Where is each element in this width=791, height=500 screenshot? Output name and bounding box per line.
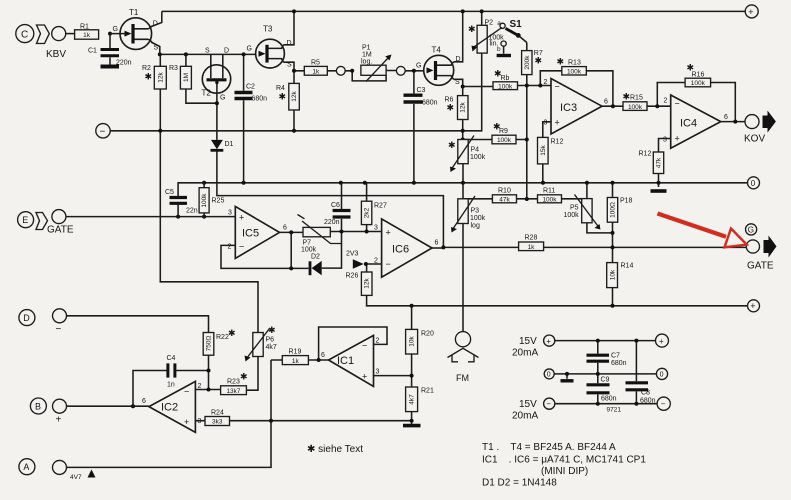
- svg-text:−: −: [546, 400, 551, 409]
- svg-text:22n: 22n: [186, 208, 198, 215]
- svg-text:1M: 1M: [362, 52, 372, 59]
- svg-text:D: D: [287, 40, 292, 47]
- svg-text:+: +: [386, 228, 391, 238]
- svg-text:R27: R27: [374, 203, 387, 210]
- svg-text:IC5: IC5: [242, 228, 259, 240]
- svg-text:100k: 100k: [497, 137, 512, 144]
- svg-text:✱: ✱: [228, 328, 236, 338]
- svg-text:✱: ✱: [535, 56, 543, 66]
- svg-text:R10: R10: [498, 188, 511, 195]
- svg-text:R28: R28: [525, 235, 538, 242]
- svg-text:680n: 680n: [422, 99, 438, 106]
- svg-text:P3: P3: [471, 208, 480, 215]
- svg-text:P18: P18: [620, 198, 633, 205]
- svg-text:R20: R20: [421, 331, 434, 338]
- svg-text:G: G: [220, 95, 225, 102]
- svg-text:T4: T4: [432, 46, 442, 55]
- svg-text:3: 3: [228, 210, 232, 217]
- svg-text:✱: ✱: [268, 325, 276, 335]
- svg-text:220n: 220n: [324, 219, 340, 226]
- svg-text:10k: 10k: [409, 336, 416, 347]
- svg-text:C9: C9: [601, 377, 610, 384]
- svg-text:R22: R22: [216, 334, 229, 341]
- svg-text:1k: 1k: [312, 69, 320, 76]
- svg-text:✱: ✱: [279, 92, 287, 102]
- svg-text:100k: 100k: [498, 83, 513, 90]
- svg-text:6: 6: [435, 240, 439, 247]
- svg-text:R13: R13: [568, 60, 581, 67]
- svg-text:+: +: [362, 372, 367, 382]
- svg-text:20mA: 20mA: [512, 348, 538, 359]
- svg-text:6: 6: [142, 398, 146, 405]
- svg-text:A: A: [23, 462, 29, 472]
- svg-text:−: −: [184, 387, 189, 397]
- svg-text:12k: 12k: [364, 278, 371, 289]
- svg-text:G: G: [247, 46, 252, 53]
- svg-text:680n: 680n: [252, 96, 268, 103]
- svg-text:T2: T2: [202, 89, 212, 98]
- svg-text:IC2: IC2: [161, 402, 178, 414]
- svg-text:1n: 1n: [167, 382, 175, 389]
- svg-text:GATE: GATE: [47, 225, 74, 236]
- svg-text:100k: 100k: [470, 154, 486, 161]
- svg-text:12k: 12k: [460, 102, 467, 113]
- svg-text:D2: D2: [311, 254, 320, 261]
- svg-text:+: +: [56, 415, 62, 426]
- svg-text:R19: R19: [289, 349, 302, 356]
- svg-text:R11: R11: [543, 188, 555, 195]
- svg-text:100Ω: 100Ω: [610, 202, 617, 218]
- svg-text:12k: 12k: [291, 91, 298, 102]
- svg-text:+: +: [184, 417, 189, 427]
- svg-text:−: −: [56, 324, 62, 335]
- svg-text:✱: ✱: [623, 92, 631, 102]
- svg-text:100k: 100k: [201, 193, 208, 208]
- svg-text:P5: P5: [570, 205, 579, 212]
- svg-text:0: 0: [547, 372, 551, 379]
- svg-text:T1 . T4 = BF245 A. BF244 A: T1 . T4 = BF245 A. BF244 A: [482, 442, 616, 453]
- svg-text:R12: R12: [639, 151, 652, 158]
- svg-text:C2: C2: [246, 84, 255, 91]
- svg-text:R3: R3: [169, 65, 178, 72]
- svg-text:2: 2: [544, 79, 548, 86]
- svg-text:+: +: [659, 337, 664, 346]
- svg-text:P4: P4: [471, 147, 480, 154]
- svg-text:4k7: 4k7: [266, 344, 277, 351]
- svg-text:log.: log.: [361, 59, 372, 66]
- svg-text:D1: D1: [225, 141, 234, 148]
- svg-text:R25: R25: [212, 198, 225, 205]
- svg-text:IC1: IC1: [337, 355, 354, 367]
- svg-text:S: S: [205, 48, 210, 55]
- svg-text:P2: P2: [485, 19, 494, 26]
- svg-text:Rb: Rb: [501, 75, 510, 82]
- svg-text:S: S: [287, 62, 292, 69]
- svg-text:4k7: 4k7: [409, 394, 416, 405]
- svg-text:R26: R26: [346, 273, 359, 280]
- svg-text:D: D: [23, 313, 30, 323]
- svg-text:✱: ✱: [687, 63, 695, 73]
- svg-text:✱: ✱: [468, 24, 476, 34]
- svg-text:3: 3: [376, 369, 380, 376]
- svg-text:D: D: [153, 21, 158, 28]
- svg-text:S: S: [455, 79, 460, 86]
- svg-text:C4: C4: [167, 355, 176, 362]
- svg-text:−: −: [675, 99, 680, 109]
- svg-text:2: 2: [374, 258, 378, 265]
- svg-text:IC6: IC6: [392, 244, 409, 256]
- svg-text:6: 6: [283, 225, 287, 232]
- svg-text:47k: 47k: [656, 157, 663, 168]
- svg-text:R16: R16: [692, 72, 705, 79]
- svg-text:+: +: [748, 7, 753, 17]
- svg-text:−: −: [362, 341, 367, 351]
- svg-text:12k: 12k: [157, 72, 164, 83]
- svg-text:D: D: [224, 48, 229, 55]
- svg-text:(MINI DIP): (MINI DIP): [541, 466, 588, 477]
- svg-text:E: E: [22, 215, 28, 225]
- svg-text:100k: 100k: [628, 104, 643, 111]
- svg-text:100k: 100k: [567, 69, 582, 76]
- svg-text:47k: 47k: [499, 197, 510, 204]
- svg-text:−: −: [386, 259, 391, 269]
- svg-text:T1: T1: [129, 8, 139, 17]
- svg-text:KOV: KOV: [744, 134, 765, 145]
- svg-text:1k: 1k: [83, 32, 91, 39]
- svg-text:✱: ✱: [447, 103, 455, 113]
- svg-text:D: D: [456, 56, 461, 63]
- svg-text:IC1 . IC6 = μA741 C, MC1741: IC1 . IC6 = μA741 C, MC1741 CP1: [482, 455, 646, 466]
- svg-text:+: +: [675, 134, 680, 144]
- svg-text:4V7: 4V7: [70, 474, 82, 481]
- svg-text:3: 3: [198, 418, 202, 425]
- svg-text:+: +: [750, 301, 755, 311]
- svg-text:15V: 15V: [519, 399, 537, 410]
- svg-text:S1: S1: [510, 19, 523, 30]
- svg-text:✱: ✱: [557, 57, 565, 67]
- svg-text:100k: 100k: [564, 212, 580, 219]
- svg-text:IC3: IC3: [560, 102, 577, 114]
- svg-text:G: G: [748, 226, 754, 235]
- svg-text:log: log: [471, 223, 480, 230]
- svg-text:R12: R12: [551, 139, 564, 146]
- svg-text:100k: 100k: [542, 197, 557, 204]
- svg-text:750Ω: 750Ω: [206, 336, 213, 352]
- svg-text:P1: P1: [362, 45, 371, 52]
- svg-text:220n: 220n: [116, 60, 132, 67]
- svg-text:+: +: [239, 213, 244, 223]
- svg-text:R14: R14: [621, 263, 634, 270]
- svg-text:6: 6: [321, 352, 325, 359]
- svg-text:a: a: [497, 20, 501, 27]
- svg-text:R5: R5: [311, 60, 320, 67]
- svg-text:R24: R24: [211, 410, 224, 417]
- svg-text:G: G: [113, 26, 118, 33]
- svg-text:C5: C5: [165, 189, 174, 196]
- svg-text:✱: ✱: [240, 372, 248, 382]
- svg-text:R15: R15: [630, 95, 643, 102]
- svg-text:−: −: [239, 242, 244, 252]
- svg-text:C3: C3: [417, 87, 426, 94]
- svg-text:P7: P7: [303, 240, 312, 247]
- svg-text:G: G: [416, 63, 421, 70]
- svg-text:S: S: [154, 45, 159, 52]
- svg-text:C7: C7: [611, 353, 620, 360]
- svg-text:680n: 680n: [640, 398, 656, 405]
- svg-text:2: 2: [376, 338, 380, 345]
- svg-text:✱: ✱: [494, 69, 502, 79]
- svg-text:2k2: 2k2: [364, 207, 371, 218]
- svg-text:10k: 10k: [610, 269, 617, 280]
- svg-text:100k: 100k: [301, 247, 317, 254]
- svg-text:−: −: [661, 400, 666, 409]
- svg-text:D1 D2 = 1N4148: D1 D2 = 1N4148: [482, 478, 557, 489]
- svg-text:100k: 100k: [691, 80, 706, 87]
- svg-text:2: 2: [228, 244, 232, 251]
- svg-text:680n: 680n: [611, 360, 627, 367]
- svg-text:680n: 680n: [601, 396, 617, 403]
- svg-text:15k: 15k: [540, 145, 547, 156]
- svg-text:R21: R21: [421, 388, 434, 395]
- svg-text:15V: 15V: [519, 336, 537, 347]
- svg-text:R23: R23: [227, 379, 240, 386]
- svg-text:P6: P6: [266, 337, 275, 344]
- svg-text:3k3: 3k3: [212, 419, 223, 426]
- svg-text:✱: ✱: [145, 72, 153, 82]
- svg-text:2: 2: [664, 98, 668, 105]
- svg-text:C1: C1: [88, 48, 97, 55]
- svg-text:100k: 100k: [470, 215, 486, 222]
- svg-text:1k: 1k: [528, 244, 536, 251]
- svg-text:3: 3: [374, 225, 378, 232]
- svg-text:0: 0: [751, 179, 756, 188]
- svg-text:B: B: [35, 401, 41, 411]
- svg-text:−: −: [100, 127, 106, 138]
- svg-text:9721: 9721: [607, 407, 622, 414]
- svg-text:✱: ✱: [448, 140, 456, 150]
- svg-text:1k: 1k: [292, 358, 300, 365]
- svg-text:T3: T3: [263, 25, 273, 34]
- svg-text:✱ siehe Text: ✱ siehe Text: [307, 444, 363, 455]
- svg-text:6: 6: [724, 114, 728, 121]
- svg-text:GATE: GATE: [747, 261, 774, 272]
- svg-text:200k: 200k: [524, 55, 531, 70]
- svg-text:20mA: 20mA: [512, 411, 538, 422]
- svg-text:FM: FM: [456, 373, 469, 383]
- svg-text:b: b: [497, 46, 501, 53]
- svg-text:IC4: IC4: [680, 118, 697, 130]
- svg-text:3: 3: [663, 137, 667, 144]
- svg-text:13k7: 13k7: [226, 388, 240, 395]
- svg-text:✱: ✱: [493, 122, 501, 132]
- svg-text:0: 0: [660, 372, 664, 379]
- svg-text:3: 3: [544, 120, 548, 127]
- svg-text:2: 2: [198, 383, 202, 390]
- svg-text:−: −: [555, 82, 560, 92]
- svg-text:C8: C8: [641, 390, 650, 397]
- svg-text:C: C: [21, 30, 28, 41]
- svg-text:KBV: KBV: [46, 49, 66, 60]
- svg-text:+: +: [555, 118, 560, 128]
- svg-text:C6: C6: [331, 202, 340, 209]
- svg-text:1M: 1M: [183, 73, 190, 82]
- svg-text:R1: R1: [80, 24, 89, 31]
- svg-text:+: +: [546, 337, 551, 346]
- svg-text:6: 6: [604, 99, 608, 106]
- svg-text:2V3: 2V3: [346, 251, 359, 258]
